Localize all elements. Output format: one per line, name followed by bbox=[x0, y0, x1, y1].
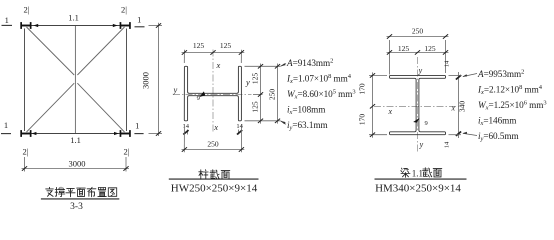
column mark bottom-left bbox=[20, 130, 31, 137]
svg-text:iy=60.5mm: iy=60.5mm bbox=[478, 131, 519, 143]
svg-text:14: 14 bbox=[443, 141, 450, 148]
y centerline (horizontal dash-dot) bbox=[173, 94, 252, 96]
beam end arrow top-right bbox=[113, 24, 118, 27]
svg-text:250: 250 bbox=[268, 89, 277, 101]
brace diagonal TL-BR bbox=[27, 27, 75, 75]
dimension 3000 bottom: dim line bbox=[22, 168, 130, 170]
brace diagonal from bottom-right to center bbox=[77, 83, 124, 132]
svg-text:y: y bbox=[173, 85, 178, 95]
svg-text:3000: 3000 bbox=[140, 72, 150, 89]
web thickness leader arrow + 9 bbox=[199, 91, 205, 97]
column mark top-right bbox=[120, 22, 131, 29]
svg-text:9: 9 bbox=[197, 95, 200, 102]
dimension 3000 right: extension lines bbox=[149, 25, 163, 27]
svg-text:HW250×250×9×14: HW250×250×9×14 bbox=[171, 183, 258, 195]
right dim line 125/125 bbox=[260, 64, 262, 124]
top dim line 250 bbox=[387, 36, 449, 38]
svg-text:ix=146mm: ix=146mm bbox=[478, 116, 516, 128]
svg-text:250: 250 bbox=[412, 27, 424, 36]
dimension 3000 bottom: extension lines bbox=[24, 157, 26, 172]
svg-text:x: x bbox=[213, 122, 218, 132]
svg-text:x: x bbox=[451, 104, 456, 113]
svg-text:125: 125 bbox=[251, 73, 260, 85]
svg-text:170: 170 bbox=[358, 114, 367, 126]
right dim 340 line bbox=[458, 72, 460, 138]
svg-text:125: 125 bbox=[251, 101, 260, 113]
frame left column line bbox=[24, 29, 26, 132]
brace diagonal from bottom-left to center bbox=[27, 83, 75, 132]
svg-text:A=9953mm2: A=9953mm2 bbox=[477, 69, 524, 80]
center vertical member bbox=[74, 26, 76, 134]
beam end arrow bottom-left bbox=[32, 132, 37, 135]
svg-text:2|: 2| bbox=[124, 147, 130, 157]
svg-text:170: 170 bbox=[358, 83, 367, 95]
title: 梁1.1截面 bbox=[401, 168, 442, 179]
leader to properties bottom bbox=[463, 133, 477, 135]
section properties text block (right) bbox=[477, 69, 547, 143]
svg-text:14: 14 bbox=[236, 123, 243, 130]
svg-text:y: y bbox=[418, 66, 423, 75]
svg-text:HM340×250×9×14: HM340×250×9×14 bbox=[375, 183, 461, 195]
frame top beam line bbox=[31, 25, 120, 27]
svg-text:Ix=2.12×108 mm4: Ix=2.12×108 mm4 bbox=[477, 84, 543, 96]
section mark 1 bottom-left bbox=[1, 120, 11, 133]
top dim line bbox=[182, 52, 245, 54]
left dim 170/170: extension lines bbox=[369, 74, 387, 76]
section mark 1 top-left bbox=[2, 15, 13, 25]
svg-text:1.1: 1.1 bbox=[412, 169, 423, 179]
x centerline (vertical dash-dot) bbox=[212, 50, 214, 134]
svg-text:1: 1 bbox=[135, 121, 139, 131]
leader to properties top bbox=[281, 64, 286, 67]
dimension 3000 right: dim line bbox=[158, 23, 160, 136]
svg-text:3-3: 3-3 bbox=[70, 202, 83, 212]
top dim 250: extension lines bbox=[389, 40, 391, 75]
svg-text:1.1: 1.1 bbox=[68, 13, 79, 23]
svg-text:14: 14 bbox=[443, 60, 450, 67]
bottom dim 250: extension lines bbox=[183, 124, 185, 152]
column mark bottom-right bbox=[120, 130, 131, 137]
middle title underline bbox=[169, 178, 259, 180]
svg-text:x: x bbox=[388, 107, 393, 116]
extension from flange to 14 ticks bbox=[449, 74, 462, 76]
svg-text:340: 340 bbox=[458, 101, 467, 113]
web thickness leader arrow + 9 bbox=[413, 118, 419, 123]
svg-text:y: y bbox=[419, 140, 424, 149]
svg-text:A=9143mm2: A=9143mm2 bbox=[286, 58, 333, 69]
section mark 1 top-right bbox=[135, 15, 145, 27]
svg-text:Wx=1.25×106 mm3: Wx=1.25×106 mm3 bbox=[478, 100, 547, 112]
svg-text:Ix=1.07×108 mm4: Ix=1.07×108 mm4 bbox=[286, 73, 352, 85]
svg-text:ix=108mm: ix=108mm bbox=[287, 105, 325, 117]
leader to properties bottom bbox=[281, 121, 286, 124]
svg-text:3000: 3000 bbox=[69, 158, 86, 168]
x centerline (horizontal dash-dot) bbox=[374, 106, 462, 108]
svg-text:125: 125 bbox=[193, 41, 205, 50]
frame right column line bbox=[126, 29, 128, 132]
svg-text:1: 1 bbox=[4, 120, 8, 130]
svg-text:y: y bbox=[245, 77, 250, 87]
svg-text:1: 1 bbox=[137, 15, 141, 25]
bottom dim line 250 bbox=[182, 149, 245, 151]
right dim line 250 bbox=[277, 64, 279, 124]
H section outline (flanges vertical, web horizontal) bbox=[184, 66, 241, 121]
top dim 125/125: extension lines bbox=[183, 50, 185, 63]
svg-text:1: 1 bbox=[5, 15, 9, 25]
svg-text:2|: 2| bbox=[23, 147, 29, 157]
svg-text:125: 125 bbox=[220, 41, 232, 50]
title: 支撑平面布置图 bbox=[46, 187, 117, 197]
svg-text:2|: 2| bbox=[121, 4, 127, 14]
left dim line bbox=[372, 72, 374, 137]
beam end arrow bottom-right bbox=[114, 132, 119, 135]
beam end arrow top-left bbox=[33, 24, 38, 27]
leader to properties top bbox=[463, 74, 477, 77]
svg-text:1.1: 1.1 bbox=[70, 135, 81, 145]
right title underline bbox=[375, 178, 467, 180]
column mark top-left bbox=[20, 22, 31, 29]
y centerline (vertical dash-dot) bbox=[417, 57, 419, 152]
section properties text block (middle) bbox=[286, 58, 356, 132]
svg-text:Wx=8.60×105 mm3: Wx=8.60×105 mm3 bbox=[287, 89, 356, 101]
frame bottom beam line bbox=[31, 133, 120, 135]
svg-text:x: x bbox=[216, 60, 221, 70]
svg-text:125: 125 bbox=[398, 44, 410, 53]
svg-text:125: 125 bbox=[424, 44, 436, 53]
svg-text:9: 9 bbox=[425, 120, 428, 127]
brace diagonal from top-right to center bbox=[77, 27, 124, 75]
svg-text:14: 14 bbox=[183, 123, 190, 130]
I section outline bbox=[390, 75, 446, 134]
title: 柱截面 bbox=[199, 170, 230, 180]
svg-text:250: 250 bbox=[207, 140, 219, 149]
svg-text:2|: 2| bbox=[24, 4, 30, 14]
title underline bbox=[41, 198, 119, 200]
right dims: extension lines bbox=[245, 65, 281, 67]
section mark 1 bottom-right bbox=[134, 121, 143, 134]
second dim 125/125 bbox=[387, 51, 449, 53]
svg-text:iy=63.1mm: iy=63.1mm bbox=[287, 120, 328, 132]
